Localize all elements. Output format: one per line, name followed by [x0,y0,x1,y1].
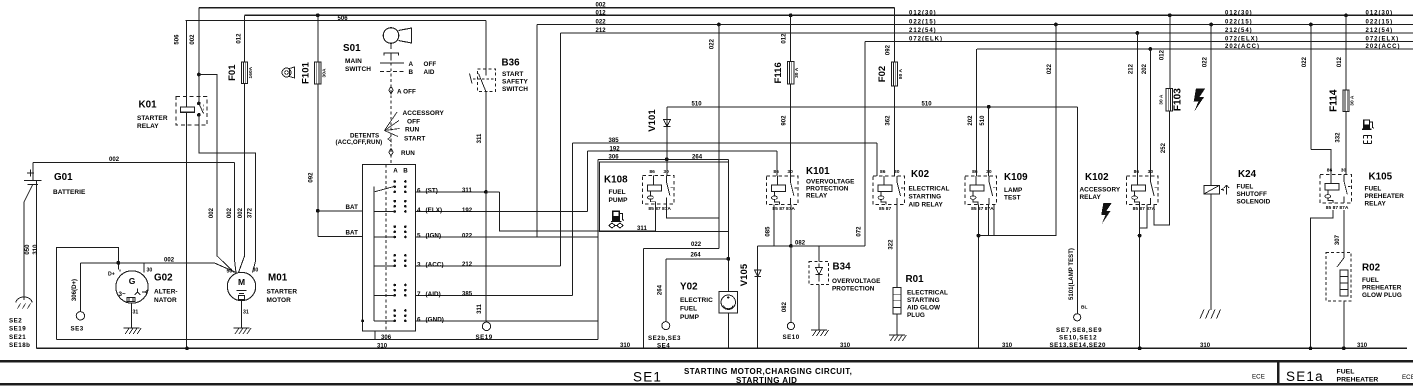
svg-text:K108: K108 [604,175,628,186]
svg-text:SE21: SE21 [9,334,26,341]
svg-text:30: 30 [894,169,900,175]
svg-text:202(ACC): 202(ACC) [1366,44,1401,50]
svg-text:PUMP: PUMP [609,197,629,204]
svg-text:80 A: 80 A [898,68,904,79]
svg-text:V105: V105 [739,263,750,286]
wire 202 drop to K102 pin30 [1148,47,1152,51]
svg-text:85 87 87A: 85 87 87A [1133,206,1156,212]
wire 082 line to B34 [758,245,865,247]
svg-text:SE2: SE2 [9,318,22,325]
svg-text:306: 306 [609,154,620,160]
wire 5101 lamp test drop [1077,107,1079,314]
svg-text:FUEL: FUEL [1337,369,1355,376]
wire 002 branch to M01 [199,75,234,273]
svg-text:FUEL: FUEL [1365,186,1382,193]
svg-text:506: 506 [338,16,349,22]
svg-text:SE1a: SE1a [1286,369,1324,384]
svg-text:PUMP: PUMP [680,314,700,321]
wire K105 pin85 to 310 bus [1311,210,1333,348]
electric fuel pump Y02 [719,292,738,314]
wire 092 F101 to S01 BAT [317,84,319,236]
svg-text:310: 310 [1200,343,1211,349]
svg-text:307: 307 [1335,234,1341,245]
svg-text:RELAY: RELAY [1080,194,1102,201]
S01 key symbol [383,28,399,44]
svg-text:M01: M01 [268,273,288,284]
wire BAT upper [318,210,363,212]
svg-text:6: 6 [417,316,421,323]
svg-text:385: 385 [462,292,473,298]
svg-text:(GND): (GND) [426,316,444,323]
svg-text:LAMP: LAMP [1004,187,1023,194]
svg-text:A OFF: A OFF [397,89,416,96]
wire 362 F02 to K02 [894,86,896,176]
start safety switch B36 [485,21,487,69]
svg-text:SE3: SE3 [71,326,84,333]
svg-text:002: 002 [209,207,215,218]
S01 pin 6 ST row [416,191,500,193]
S01 position B AID [380,70,404,72]
wire 022 link K109 to K102 [979,235,1057,237]
wire BAT lower [318,235,363,237]
wire 085 K101 pin85 [773,204,775,246]
terminal SE19 [482,322,490,330]
svg-text:F114: F114 [1329,89,1340,112]
svg-text:AID RELAY: AID RELAY [909,202,944,209]
svg-text:022: 022 [710,38,716,49]
svg-text:86: 86 [649,169,655,175]
S01 internal jumper column [373,186,375,321]
svg-text:012: 012 [236,33,242,44]
wire K01 coil to ground bus [186,113,188,349]
terminal SE10 [787,322,794,329]
svg-text:(ACC,OFF,RUN): (ACC,OFF,RUN) [336,139,383,146]
S01 pin 7 AID row [416,294,573,296]
B34 ground [818,285,820,331]
svg-text:B36: B36 [502,58,521,69]
svg-text:GLOW PLUG: GLOW PLUG [1362,292,1402,299]
wire 212 drop to K102 pin86 [1135,31,1139,35]
fuse F101 30A [316,13,320,17]
svg-text:V101: V101 [647,109,658,132]
wire 510 drop to K109 pin30 [987,105,991,109]
svg-text:B: B [409,69,414,76]
svg-text:S01: S01 [343,43,361,54]
wire 022 horizontal above Y02 [643,247,719,249]
wire 306 riser [597,159,599,339]
svg-text:85 87 87A: 85 87 87A [648,206,671,212]
wire 264 vertical to Y02 [727,159,729,291]
svg-text:264: 264 [658,284,664,295]
F103 lightning symbol [1194,89,1206,112]
svg-text:OFF: OFF [424,61,437,68]
svg-text:G01: G01 [54,172,73,183]
S01 A OFF arrow [389,87,393,94]
svg-text:510: 510 [980,115,986,126]
svg-text:202(ACC): 202(ACC) [1225,44,1260,50]
svg-text:OVERVOLTAGE: OVERVOLTAGE [806,178,855,185]
wire 264 to SE2b [666,258,729,260]
fuel shutoff solenoid K24 [1204,185,1220,194]
wire 212 riser ACC [560,33,562,266]
wire 022 drop to 310 bus [642,248,644,348]
S01 pin 4 ELX row [416,211,588,213]
wire 002 drop to K01 switch [198,8,200,104]
fuel preheater glow plug R02 [1326,253,1351,302]
svg-text:FUEL: FUEL [1362,277,1379,284]
K105 fuel pump icon [1362,119,1374,129]
svg-text:SHUTOFF: SHUTOFF [1237,191,1267,198]
svg-text:002: 002 [109,157,120,163]
svg-text:002: 002 [596,3,607,9]
svg-text:ALTER-: ALTER- [154,289,178,296]
key symbol icon [282,68,291,77]
svg-text:86: 86 [1327,168,1333,174]
wire 192 line [588,150,777,152]
svg-text:212: 212 [462,262,473,268]
svg-text:FUEL: FUEL [609,189,626,196]
svg-text:3~: 3~ [119,291,127,298]
overvoltage protection B34 [818,246,820,262]
svg-text:SWITCH: SWITCH [502,86,528,93]
wire 022 drop to K24 [1209,23,1213,27]
svg-text:202: 202 [968,115,974,126]
svg-text:OFF: OFF [407,119,420,126]
wire 311 B36 to SE19 [485,92,487,323]
svg-text:(ACC): (ACC) [426,261,444,268]
relay K105 [1320,175,1352,204]
svg-text:BAT: BAT [346,230,359,237]
svg-text:012(30): 012(30) [909,10,937,16]
svg-text:072(ELX): 072(ELX) [1225,37,1259,43]
svg-text:310: 310 [33,244,39,255]
terminal SE2b SE3 SE4 [662,322,670,330]
svg-text:7: 7 [417,291,421,298]
wire R02 to 310 bus [1343,301,1345,348]
alternator G02 [116,271,148,303]
svg-text:RELAY: RELAY [806,192,828,199]
svg-text:022(15): 022(15) [909,20,937,26]
svg-text:M: M [238,277,245,287]
svg-text:START: START [502,71,523,78]
svg-text:002: 002 [238,207,244,218]
svg-text:SAFETY: SAFETY [502,79,529,86]
svg-text:30A: 30A [321,68,327,77]
svg-text:322: 322 [888,239,894,250]
svg-text:092: 092 [886,44,892,55]
svg-text:BAT: BAT [346,204,359,211]
K108 fuel pump icon [611,211,624,222]
svg-text:192: 192 [610,146,621,152]
svg-text:902: 902 [782,115,788,126]
svg-text:30 A: 30 A [794,67,800,78]
component box K108 [600,162,729,232]
svg-text:PREHEATER: PREHEATER [1337,376,1379,383]
svg-text:6: 6 [417,187,421,194]
svg-text:R01: R01 [906,274,925,285]
svg-text:385: 385 [609,138,620,144]
svg-text:264: 264 [691,253,702,259]
S01 dashed stem [390,58,392,165]
svg-text:D+: D+ [108,272,115,278]
S01 bracket [384,53,399,56]
wire 022 bus [537,24,1413,26]
svg-text:PROTECTION: PROTECTION [832,286,875,293]
svg-text:BATTERIE: BATTERIE [53,189,86,196]
svg-text:212: 212 [1129,63,1135,74]
svg-text:022: 022 [691,242,702,248]
S01 pin 5 IGN row [416,236,599,238]
wire 510 line [667,106,1078,108]
svg-text:362: 362 [886,115,892,126]
wire 002 G02 to M01 [80,263,236,273]
wire 310 bus [37,347,1407,349]
svg-text:G: G [129,276,136,286]
svg-text:192: 192 [462,208,473,214]
svg-text:ECE: ECE [1252,373,1265,380]
svg-text:K02: K02 [911,169,930,180]
svg-text:RELAY: RELAY [137,123,159,130]
svg-text:252: 252 [1161,142,1167,153]
svg-text:RUN: RUN [405,127,419,134]
svg-text:306(D+): 306(D+) [72,279,78,301]
wire 212 bus [561,32,1413,34]
svg-text:ELECTRICAL: ELECTRICAL [907,290,948,297]
wire 050 battery negative [24,184,33,300]
svg-text:STARTING MOTOR,CHARGING CIRCUI: STARTING MOTOR,CHARGING CIRCUIT, [684,367,852,376]
svg-text:TEST: TEST [1004,195,1021,202]
svg-text:212: 212 [596,28,607,34]
svg-text:264: 264 [692,154,703,160]
svg-text:SE2b,SE3: SE2b,SE3 [648,335,681,342]
starter motor M01 [227,272,255,300]
wire 192 riser ELX [587,151,589,211]
svg-text:082: 082 [795,241,806,247]
wire K109 pin87 pin87A joins [988,204,990,235]
svg-text:K101: K101 [806,166,830,177]
svg-text:31: 31 [133,310,139,316]
wire 385 drop to K02 pin86 [876,143,878,176]
svg-text:3: 3 [417,261,421,268]
svg-text:012: 012 [1337,56,1343,67]
svg-text:K102: K102 [1085,172,1109,183]
diode V101 [666,107,668,160]
svg-text:ELECTRIC: ELECTRIC [680,297,713,304]
S01 connector contact dots [393,180,396,183]
wire 002 battery to starter [33,162,235,164]
svg-text:RUN: RUN [401,150,415,157]
svg-text:F116: F116 [773,62,784,83]
svg-text:AID GLOW: AID GLOW [907,305,941,312]
svg-text:050: 050 [25,244,31,255]
svg-text:G02: G02 [154,273,173,284]
svg-text:160A: 160A [248,66,254,78]
wire K102 pin87 jog [1140,204,1147,228]
svg-text:R02: R02 [1362,263,1381,274]
svg-text:OVERVOLTAGE: OVERVOLTAGE [832,278,881,285]
wire 372 K01 switch to M01 term 50 [199,115,256,273]
relay K102 [1127,176,1159,205]
svg-text:30: 30 [1341,168,1347,174]
wire 506 K01 coil to S01 [186,20,486,22]
svg-text:022: 022 [596,20,607,26]
svg-text:310: 310 [840,343,851,349]
svg-text:4: 4 [417,207,421,214]
svg-text:072: 072 [856,226,862,237]
svg-text:50: 50 [227,269,233,275]
svg-text:RELAY: RELAY [1365,201,1387,208]
fuse F116 30A [789,13,793,17]
svg-text:START: START [404,136,425,143]
svg-text:022: 022 [1203,56,1209,67]
svg-text:SE19: SE19 [9,326,26,333]
svg-text:30: 30 [663,169,669,175]
svg-text:F02: F02 [877,66,888,83]
wire 385 line [572,142,877,144]
wire 082 K101 pin87 to SE10 [790,204,792,246]
svg-text:85 87 87A: 85 87 87A [772,206,795,212]
svg-text:F01: F01 [227,64,238,81]
wire 902 F116 to K101 [790,84,792,176]
S01 connector box [363,165,416,331]
svg-text:K109: K109 [1004,172,1028,183]
fuse F02 80A [894,8,896,62]
svg-text:022: 022 [1302,56,1308,67]
svg-text:072(ELX): 072(ELX) [1366,37,1400,43]
wire D+ sense to 306 bus [57,247,119,339]
svg-text:082: 082 [782,301,788,312]
wire 012 bus [245,14,1413,16]
svg-text:(AID): (AID) [426,291,441,298]
svg-text:PREHEATER: PREHEATER [1362,285,1402,292]
chassis ground SE2 [16,297,32,303]
svg-text:86: 86 [773,169,779,175]
wire 202 drop to K109 pin86 [976,49,978,176]
svg-text:SOLENOID: SOLENOID [1237,199,1271,206]
svg-text:072(ELK): 072(ELK) [909,37,943,43]
svg-text:B: B [403,167,408,174]
svg-text:510: 510 [922,102,933,108]
svg-text:STARTING: STARTING [909,194,942,201]
wire 306(D+) to SE3 [79,263,81,312]
svg-text:310: 310 [620,343,631,349]
svg-text:212(54): 212(54) [1366,28,1394,34]
svg-text:PLUG: PLUG [907,312,925,319]
svg-text:AID: AID [424,69,435,76]
wire 022 drop to Y02 line [717,23,721,27]
svg-text:30: 30 [147,268,153,274]
wire 307 K105 pin87 to R02 [1343,210,1345,253]
svg-text:212(54): 212(54) [1225,28,1253,34]
svg-text:K105: K105 [1369,172,1393,183]
wire Y02 to 310 bus [727,313,729,348]
svg-text:Y02: Y02 [680,282,698,293]
svg-text:(ELX): (ELX) [426,207,443,214]
S01 306 drop to bus [374,331,376,340]
svg-text:012(30): 012(30) [1366,10,1394,16]
wire 322 K02 pin87 to R01 [896,204,898,287]
wire 002 bus [199,7,895,9]
svg-text:310: 310 [1002,343,1013,349]
svg-text:85 87: 85 87 [879,206,892,212]
svg-text:(ST): (ST) [426,187,438,194]
fuse F01 160A [244,15,246,62]
wire K109 pin85 to 310 bus [978,204,980,348]
wire 310 from battery [36,180,38,348]
svg-text:FUEL: FUEL [680,306,697,313]
svg-text:86: 86 [1134,169,1140,175]
wire K108 pin30 from 264 node [666,159,668,175]
svg-text:085: 085 [766,226,772,237]
svg-text:PREHEATER: PREHEATER [1365,193,1405,200]
wire 311 jog ST to K108 [499,192,656,231]
svg-text:306: 306 [381,335,392,341]
terminal SE3 [76,312,84,320]
svg-text:30: 30 [787,169,793,175]
wire 306 bus [57,339,599,341]
svg-text:372: 372 [247,207,253,218]
svg-text:85 87 87A: 85 87 87A [1326,205,1349,211]
svg-text:F101: F101 [300,61,311,84]
svg-text:ACCESSORY: ACCESSORY [403,110,445,117]
battery G01 symbol [27,170,34,177]
wire K108 pin85 to 311 [654,204,656,231]
svg-text:PROTECTION: PROTECTION [806,185,849,192]
wire 022 drop to K105 pin86 [1309,23,1313,27]
relay K108 [642,176,674,205]
svg-text:SE10,SE12: SE10,SE12 [1059,335,1097,342]
M01 ground wire 31 [241,301,243,328]
svg-text:5101(LAMP TEST): 5101(LAMP TEST) [1069,248,1075,300]
K01 switch contacts [197,102,201,106]
svg-text:002: 002 [227,207,233,218]
svg-text:ECE: ECE [1402,374,1413,381]
svg-text:30: 30 [253,268,259,274]
svg-text:506: 506 [175,34,181,45]
wire 202 bus [977,48,1413,50]
svg-text:022(15): 022(15) [1366,20,1394,26]
S01 pin 3 ACC row [416,265,561,267]
svg-text:311: 311 [477,133,483,143]
svg-text:30 A: 30 A [1158,94,1164,105]
svg-text:ACCESSORY: ACCESSORY [1080,187,1121,194]
svg-text:SE1: SE1 [633,370,662,385]
svg-text:(IGN): (IGN) [426,233,442,240]
svg-text:SE18b: SE18b [9,342,30,349]
svg-text:332: 332 [1336,132,1342,143]
svg-text:NATOR: NATOR [154,297,177,304]
svg-text:311: 311 [462,188,472,194]
svg-text:85 87 87A: 85 87 87A [971,206,994,212]
K102 lightning symbol [1101,203,1112,224]
glow plug resistor R01 [893,288,901,314]
svg-text:022(15): 022(15) [1225,20,1253,26]
wire K108 pin87 jog [666,204,718,218]
svg-text:STARTER: STARTER [267,289,298,296]
wire 332 F114 to K105 pin30 [1345,111,1347,174]
svg-text:SE7,SE8,SE9: SE7,SE8,SE9 [1056,327,1102,334]
relay K109 [965,176,997,205]
wire 072 bus [865,41,1413,43]
svg-text:B34: B34 [833,262,852,273]
S01 pin 6 GND row [416,320,599,322]
svg-text:ELECTRICAL: ELECTRICAL [909,186,950,193]
svg-text:311: 311 [477,303,483,313]
svg-text:012: 012 [596,10,607,16]
svg-text:K01: K01 [139,100,158,111]
svg-text:SE10: SE10 [783,334,800,341]
svg-text:BL: BL [1081,305,1088,311]
